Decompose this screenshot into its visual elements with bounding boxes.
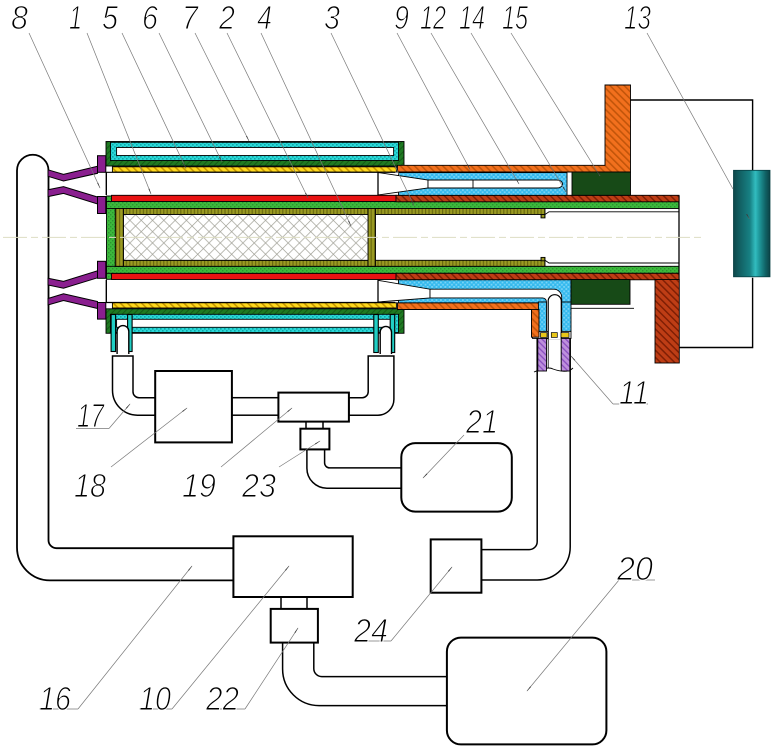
svg-text:15: 15 (502, 0, 528, 36)
svg-text:13: 13 (624, 0, 651, 36)
svg-text:11: 11 (619, 374, 649, 411)
svg-text:14: 14 (459, 0, 485, 36)
svg-text:22: 22 (205, 680, 239, 717)
svg-text:18: 18 (74, 467, 107, 504)
svg-text:23: 23 (241, 467, 277, 504)
svg-text:21: 21 (465, 403, 498, 440)
svg-text:24: 24 (353, 612, 388, 649)
svg-text:10: 10 (139, 680, 172, 717)
svg-text:8: 8 (11, 0, 29, 36)
svg-text:17: 17 (77, 397, 105, 434)
svg-text:2: 2 (218, 0, 235, 36)
svg-text:5: 5 (102, 0, 119, 36)
svg-text:19: 19 (182, 467, 216, 504)
svg-text:9: 9 (394, 0, 409, 36)
svg-text:20: 20 (616, 550, 654, 587)
svg-text:4: 4 (257, 0, 272, 36)
svg-text:1: 1 (69, 0, 82, 36)
svg-text:6: 6 (142, 0, 159, 36)
svg-text:12: 12 (420, 0, 446, 36)
svg-text:3: 3 (324, 0, 341, 36)
svg-text:16: 16 (39, 680, 72, 717)
svg-text:7: 7 (182, 0, 199, 36)
